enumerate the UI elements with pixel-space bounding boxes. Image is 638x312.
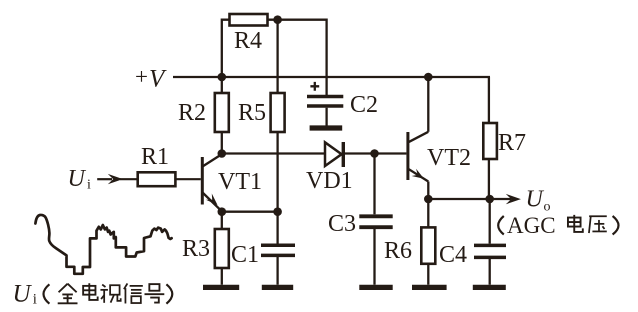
label R5 bbox=[238, 100, 266, 126]
wire node to C1 bbox=[276, 212, 278, 244]
output arrow bbox=[490, 194, 521, 204]
label R3 bbox=[182, 236, 210, 262]
svg-text:+: + bbox=[135, 64, 148, 89]
svg-text:R6: R6 bbox=[384, 238, 412, 264]
ground below R3 bbox=[203, 285, 239, 290]
wire arrow to R1 bbox=[120, 178, 138, 180]
diode VD1 bbox=[325, 142, 345, 167]
label R6 bbox=[384, 238, 412, 264]
wire emitter row 2 bbox=[428, 198, 489, 200]
wire R3 bottom bbox=[221, 268, 223, 285]
svg-text:AGC: AGC bbox=[507, 213, 556, 238]
label C3 bbox=[328, 211, 356, 237]
node output junction bbox=[485, 195, 494, 204]
svg-text:R5: R5 bbox=[238, 100, 266, 126]
wire diode to VT2 base bbox=[345, 152, 406, 154]
label Ui input bbox=[68, 166, 92, 193]
resistor R6 bbox=[421, 227, 435, 263]
svg-text:C1: C1 bbox=[231, 242, 259, 268]
wire node to R6 bbox=[427, 199, 429, 227]
svg-text:VD1: VD1 bbox=[306, 168, 353, 194]
resistor R7 bbox=[483, 123, 497, 159]
wire R5 bottom to emitter row bbox=[276, 132, 278, 212]
label +V bbox=[135, 64, 167, 93]
transistor VT1 bbox=[201, 155, 221, 210]
resistor R4 bbox=[230, 14, 268, 26]
node VT1 collector bbox=[218, 149, 227, 158]
transistor VT2 bbox=[406, 132, 428, 182]
ground below C4 bbox=[473, 285, 506, 290]
label VT1 bbox=[218, 169, 262, 195]
node VT1 emitter bbox=[218, 207, 227, 216]
svg-text:U: U bbox=[68, 166, 87, 192]
wire R6 bottom bbox=[427, 264, 429, 285]
label R1 bbox=[141, 144, 169, 170]
waveform full TV signal bbox=[35, 215, 171, 274]
svg-text:i: i bbox=[33, 292, 37, 308]
wire R5 top bbox=[276, 20, 278, 93]
resistor R1 bbox=[138, 172, 176, 186]
label C4 bbox=[439, 242, 467, 268]
node R4 right junction bbox=[273, 15, 282, 24]
wire collector line to diode bbox=[222, 152, 325, 154]
wire R4 left leg bbox=[222, 20, 230, 77]
ground below R6 bbox=[412, 285, 447, 290]
svg-text:U: U bbox=[13, 281, 33, 308]
label C1 bbox=[231, 242, 259, 268]
node VT2 collector rail junction bbox=[424, 73, 433, 82]
wire node to C3 bbox=[373, 154, 375, 215]
capacitor C4 bbox=[474, 245, 506, 284]
ground below C3 bbox=[359, 285, 392, 290]
ground below C1 bbox=[262, 285, 293, 290]
label (AGC voltage) bbox=[498, 213, 618, 238]
label C2 bbox=[350, 92, 378, 118]
svg-text:i: i bbox=[87, 178, 91, 193]
wire R1 to VT1 base bbox=[175, 178, 200, 180]
label R4 bbox=[234, 28, 262, 54]
label VT2 bbox=[427, 145, 471, 171]
wire VT2 emitter down bbox=[427, 182, 429, 200]
wire emitter row bbox=[222, 211, 278, 213]
input arrow bbox=[97, 174, 123, 184]
resistor R5 bbox=[271, 93, 285, 132]
node emitter R5/C1 junction bbox=[273, 207, 282, 216]
wire VT2 collector to rail bbox=[427, 77, 429, 132]
svg-text:VT2: VT2 bbox=[427, 145, 471, 171]
wire R2 top bbox=[221, 77, 223, 93]
svg-text:VT1: VT1 bbox=[218, 169, 262, 195]
wire R7 bottom to output node bbox=[488, 159, 490, 199]
svg-text:R2: R2 bbox=[178, 100, 206, 126]
capacitor C3 bbox=[359, 216, 392, 284]
node diode cathode junction bbox=[370, 149, 379, 158]
wire emitter to R3 bbox=[221, 212, 223, 229]
label Uo bbox=[526, 187, 551, 215]
label Ui full TV signal bbox=[13, 281, 173, 308]
capacitor C1 bbox=[261, 245, 295, 284]
capacitor C2 bbox=[307, 82, 343, 126]
svg-text:R3: R3 bbox=[182, 236, 210, 262]
node VT2 emitter bbox=[424, 195, 433, 204]
svg-text:C4: C4 bbox=[439, 242, 467, 268]
svg-text:R1: R1 bbox=[141, 144, 169, 170]
svg-text:R7: R7 bbox=[498, 130, 526, 156]
label R7 bbox=[498, 130, 526, 156]
svg-text:C2: C2 bbox=[350, 92, 378, 118]
svg-text:U: U bbox=[526, 187, 545, 213]
ground below C2 bbox=[310, 125, 343, 130]
node rail R2/R4 junction bbox=[218, 73, 227, 82]
svg-text:C3: C3 bbox=[328, 211, 356, 237]
wire rail corner down to R7 bbox=[488, 77, 490, 123]
label R2 bbox=[178, 100, 206, 126]
svg-text:R4: R4 bbox=[234, 28, 262, 54]
resistor R2 bbox=[215, 93, 229, 132]
wire node to C4 bbox=[489, 199, 491, 244]
label VD1 bbox=[306, 168, 353, 194]
wire +V rail bbox=[173, 76, 490, 78]
wire R4 right to C2 top corner bbox=[268, 20, 327, 95]
resistor R3 bbox=[215, 229, 229, 268]
wire R2 bottom to collector node bbox=[221, 132, 223, 154]
